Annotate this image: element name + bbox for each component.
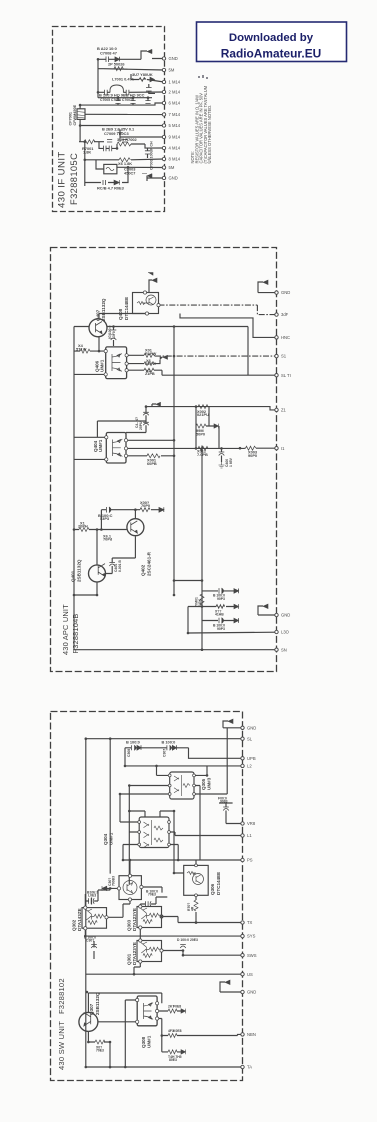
transistor Q407 bbox=[89, 319, 107, 337]
svg-text:SL: SL bbox=[247, 736, 253, 741]
wire 5M row with left bus bbox=[98, 59, 164, 97]
svg-text:C7005 C7006 C7007: C7005 C7006 C7007 bbox=[100, 98, 132, 102]
svg-text:UM#3: UM#3 bbox=[207, 777, 212, 790]
cap Q407-Q406 bbox=[111, 330, 117, 340]
digital transistor Q306 bbox=[184, 865, 209, 895]
bottom cluster wires bbox=[174, 581, 234, 634]
flag r3 bbox=[181, 1050, 186, 1055]
svg-text:L2: L2 bbox=[247, 764, 252, 769]
svg-text:4 M14: 4 M14 bbox=[169, 146, 181, 151]
resistor left of Q406 bbox=[80, 349, 90, 353]
caps row C7005 C7006 C7007 bbox=[115, 101, 150, 104]
wire US long bbox=[86, 973, 243, 975]
resistor below Q307 bbox=[95, 1040, 105, 1044]
svg-text:TA: TA bbox=[247, 1065, 252, 1070]
cap left of Q301 bbox=[91, 945, 97, 949]
wire GND top flag bbox=[223, 721, 243, 794]
digital transistor Q302 bbox=[82, 908, 107, 929]
transistor array Q308 bbox=[137, 996, 157, 1026]
wire L2 bbox=[125, 766, 243, 776]
cap right of Q301 bbox=[180, 945, 186, 949]
svg-text:70Pd: 70Pd bbox=[103, 537, 113, 542]
capacitor near 2M14 bbox=[146, 88, 152, 92]
svg-text:L3O: L3O bbox=[281, 630, 290, 635]
resistors under Q306 bbox=[194, 900, 198, 911]
R7001 wire 4M14 row bbox=[79, 142, 164, 149]
APC unit dashed border bbox=[51, 248, 277, 672]
svg-text:B 100:0: B 100:0 bbox=[126, 740, 140, 745]
transistor Q307 bbox=[79, 1012, 98, 1031]
wire Q308 right resistors bbox=[157, 1011, 242, 1052]
resistors right of Q406 bbox=[144, 353, 154, 357]
resistor 7627 bbox=[198, 446, 208, 450]
svg-text:CFWM450E: CFWM450E bbox=[73, 104, 77, 125]
cap above Q303 bbox=[146, 901, 152, 907]
IF connector GND bbox=[162, 57, 165, 60]
flag left of Q309 bbox=[102, 886, 107, 891]
svg-text:3U7 Y80UK: 3U7 Y80UK bbox=[132, 72, 153, 77]
IF connector 5M14 bbox=[162, 124, 165, 127]
svg-text:20PH: 20PH bbox=[78, 524, 88, 529]
wire y455 row bbox=[126, 448, 222, 462]
svg-text:2SB1132Q: 2SB1132Q bbox=[77, 559, 82, 582]
cap above X1 bbox=[106, 507, 163, 513]
svg-text:DTC144EE: DTC144EE bbox=[216, 872, 221, 895]
svg-text:TX: TX bbox=[247, 920, 253, 925]
caps row mid bbox=[107, 130, 128, 142]
svg-text:SN: SN bbox=[281, 647, 287, 652]
svg-text:C7008 47: C7008 47 bbox=[100, 51, 117, 56]
svg-text:Z1: Z1 bbox=[281, 408, 287, 413]
svg-text:VR8: VR8 bbox=[247, 821, 256, 826]
wire PS bbox=[123, 845, 243, 861]
svg-text:25PU: 25PU bbox=[139, 421, 143, 430]
svg-text:Q408: Q408 bbox=[118, 308, 123, 320]
svg-text:9 M14: 9 M14 bbox=[169, 135, 181, 140]
svg-text:DTA123YE: DTA123YE bbox=[132, 908, 137, 931]
inductor L7001 bbox=[110, 85, 123, 93]
cap above Q302 bbox=[89, 898, 95, 904]
svg-text:1.8K: 1.8K bbox=[83, 150, 91, 155]
svg-text:5M: 5M bbox=[169, 165, 175, 170]
svg-text:90P3: 90P3 bbox=[217, 627, 225, 631]
svg-text:UM#1: UM#1 bbox=[98, 439, 103, 452]
wire SL long bbox=[86, 739, 243, 1067]
caps above Q404 bbox=[143, 412, 149, 425]
svg-text:7.0PB: 7.0PB bbox=[197, 452, 208, 457]
wire Q301 pins bbox=[134, 936, 183, 974]
SW connector US bbox=[241, 973, 244, 976]
APC connector S1 bbox=[275, 354, 278, 357]
wire X1 row bbox=[74, 529, 127, 531]
svg-text:US: US bbox=[247, 972, 253, 977]
svg-text:2SC2461-R: 2SC2461-R bbox=[147, 551, 152, 576]
CF7001 pins bbox=[79, 105, 81, 142]
IF connector 6M14 bbox=[162, 101, 165, 104]
svg-text:8 M14: 8 M14 bbox=[169, 157, 181, 162]
caps row bus bbox=[98, 98, 152, 105]
SW unit dashed border bbox=[51, 712, 243, 1081]
svg-text:3dF: 3dF bbox=[281, 312, 289, 317]
wire Q302 pins bbox=[85, 901, 123, 936]
SW connector GND bbox=[241, 726, 244, 729]
flag mid right of Q406 bbox=[160, 355, 168, 360]
svg-text:Q303: Q303 bbox=[127, 919, 132, 931]
svg-text:60PB: 60PB bbox=[147, 461, 157, 466]
flag GND3 bbox=[225, 980, 230, 984]
capacitor C307 bbox=[167, 745, 177, 750]
wire Q404 left bbox=[74, 421, 116, 459]
svg-text:Q304: Q304 bbox=[103, 833, 108, 845]
cap VR8 bbox=[223, 807, 229, 811]
wire Q406 left bbox=[74, 351, 106, 374]
SW connector NBN bbox=[241, 1033, 244, 1036]
svg-text:021PU: 021PU bbox=[197, 412, 209, 417]
wire Q404 top bbox=[116, 421, 146, 433]
svg-text:Q402: Q402 bbox=[141, 564, 146, 576]
flag under C408 bbox=[219, 462, 225, 468]
flag r1 bbox=[181, 1009, 186, 1014]
svg-text:GND: GND bbox=[281, 290, 290, 295]
crystal filter CF7001 bbox=[77, 109, 85, 120]
svg-text:X6 1.8K: X6 1.8K bbox=[118, 161, 132, 166]
flag GND top bbox=[263, 280, 268, 284]
flag GND bottom bbox=[142, 174, 152, 179]
svg-text:5 M14: 5 M14 bbox=[169, 123, 181, 128]
SW connector TX bbox=[241, 921, 244, 924]
svg-text:PS: PS bbox=[247, 858, 253, 863]
diode D402 bbox=[214, 424, 219, 429]
svg-text:S1: S1 bbox=[281, 354, 287, 359]
resistor ladder under Z1 bbox=[196, 407, 219, 449]
wire top GND bbox=[98, 51, 164, 59]
APC connector GND bbox=[275, 291, 278, 294]
IF connector 2M14 bbox=[162, 90, 165, 93]
svg-text:L7001 0.47h: L7001 0.47h bbox=[112, 76, 135, 81]
digital transistor Q408 bbox=[133, 293, 159, 314]
svg-text:SWS: SWS bbox=[247, 953, 257, 958]
SW connector UPB bbox=[241, 757, 244, 760]
flag GND top bbox=[147, 49, 152, 53]
wire cap above Q303 bbox=[140, 897, 167, 904]
IF connector GND2 bbox=[162, 176, 165, 179]
long wire 6M14 bbox=[80, 103, 164, 105]
capacitor C7008 top bbox=[106, 57, 120, 63]
IF connector 5M bbox=[162, 68, 165, 71]
junction dots bbox=[112, 325, 115, 328]
APC connector SLTI bbox=[275, 374, 278, 377]
digital transistor Q301 bbox=[137, 941, 162, 962]
wire Q306 bottom resistors bbox=[195, 895, 197, 922]
wire cap above Q302 bbox=[85, 890, 110, 905]
resistor X41 bbox=[216, 604, 239, 609]
svg-text:430 APC UNIT: 430 APC UNIT bbox=[61, 604, 70, 655]
svg-text:UPB: UPB bbox=[247, 756, 256, 761]
svg-text:Q305: Q305 bbox=[201, 778, 206, 790]
svg-text:2 M14: 2 M14 bbox=[169, 90, 181, 95]
svg-text:F0E8: F0E8 bbox=[173, 1005, 181, 1009]
wire Q304 left pins bbox=[120, 794, 139, 845]
wire 3dF dash-dot bbox=[159, 305, 277, 315]
svg-text:D 100:0 20E3: D 100:0 20E3 bbox=[177, 938, 198, 942]
wire GND3 flag bbox=[220, 982, 243, 992]
SW connector TA bbox=[241, 1065, 244, 1068]
resistor X001 bbox=[147, 454, 160, 458]
wire Z1 bbox=[146, 407, 277, 410]
resistor ladder R402 bbox=[198, 405, 208, 409]
svg-text:C307: C307 bbox=[163, 749, 167, 757]
resistor ladder R403 bbox=[196, 424, 206, 428]
svg-text:41HB: 41HB bbox=[215, 613, 224, 617]
SW connector L1 bbox=[241, 834, 244, 837]
cap C404 bbox=[109, 563, 115, 567]
discriminator pins bbox=[80, 142, 164, 169]
svg-text:GND: GND bbox=[247, 990, 256, 995]
bottom diode bbox=[114, 180, 120, 185]
wire Q307 base Q308 bbox=[98, 1021, 137, 1023]
inductor L7001 wire bbox=[98, 91, 164, 93]
svg-text:700B3: 700B3 bbox=[112, 876, 116, 886]
ceramic discriminator CD7001 bbox=[104, 164, 117, 173]
svg-text:7 M14: 7 M14 bbox=[169, 112, 181, 117]
svg-text:70E3: 70E3 bbox=[148, 893, 156, 897]
resistor R7004 bbox=[119, 158, 130, 162]
svg-text:Q308: Q308 bbox=[141, 1036, 146, 1048]
APC connector HNC bbox=[275, 336, 278, 339]
svg-text:E1PW: E1PW bbox=[145, 361, 156, 366]
flag GND top bbox=[228, 719, 233, 723]
wire Q402 top bbox=[101, 510, 159, 530]
svg-text:GND: GND bbox=[281, 613, 290, 618]
wire HNC bbox=[180, 314, 277, 338]
wire 1M14 row bbox=[131, 74, 164, 82]
capacitor C308 bbox=[132, 745, 142, 750]
svg-text:L0E3: L0E3 bbox=[88, 894, 96, 898]
wire Q407 collector row bbox=[107, 327, 277, 376]
wire 8M14 row bbox=[85, 142, 164, 186]
wire UPB caps row bbox=[110, 739, 242, 874]
svg-text:F3288104B: F3288104B bbox=[71, 613, 80, 653]
wire GND top with flag pole bbox=[258, 282, 277, 293]
svg-text:C308: C308 bbox=[127, 749, 131, 757]
note block bbox=[190, 85, 212, 163]
svg-text:HNC: HNC bbox=[281, 335, 290, 340]
resistor YM01 bbox=[200, 594, 204, 605]
wire SN bbox=[74, 649, 277, 651]
IF connector 7M14 bbox=[162, 113, 165, 116]
badge box bbox=[197, 22, 347, 62]
svg-text:UNLESS OTHERWISE NOTED.: UNLESS OTHERWISE NOTED. bbox=[207, 105, 212, 164]
resistor R7001 bbox=[84, 140, 95, 144]
cap B100 bottom bbox=[219, 618, 239, 624]
wire Q303 pins bbox=[140, 904, 178, 936]
junction dots bbox=[85, 737, 88, 740]
vertical to 7M14 bbox=[85, 113, 164, 115]
wire TA long bbox=[86, 1066, 243, 1068]
IF connector 4M14 bbox=[162, 146, 165, 149]
cap C7003 vertical bbox=[147, 148, 149, 158]
svg-text:RadioAmateur.EU: RadioAmateur.EU bbox=[221, 46, 321, 60]
APC connector 3dF bbox=[275, 313, 278, 316]
smudge mark below badge bbox=[198, 75, 208, 79]
svg-text:GND: GND bbox=[169, 176, 178, 181]
small transistor pkg Q309 bbox=[119, 876, 141, 900]
svg-text:UM#1: UM#1 bbox=[99, 359, 104, 372]
wire Q3xx cluster top bbox=[107, 845, 162, 905]
bottom series cap bbox=[103, 180, 106, 185]
svg-text:43F0: 43F0 bbox=[112, 331, 116, 339]
SW connector VR8 bbox=[241, 822, 244, 825]
wire Q306 top bbox=[174, 811, 196, 873]
resistor near I1 bbox=[246, 446, 257, 450]
IF connector 9M14 bbox=[162, 135, 165, 138]
svg-text:Q301: Q301 bbox=[127, 953, 132, 965]
svg-text:UM#1: UM#1 bbox=[109, 832, 114, 845]
wire VR8 cap bbox=[219, 803, 243, 824]
svg-text:RC/B 4.7 R0E3: RC/B 4.7 R0E3 bbox=[97, 186, 125, 191]
svg-text:L1: L1 bbox=[247, 833, 252, 838]
wire Q305 right pins bbox=[194, 766, 227, 860]
wire cap left Q301 bbox=[93, 941, 95, 959]
svg-text:Q307: Q307 bbox=[89, 1003, 94, 1015]
transistor array Q406 bbox=[106, 347, 127, 379]
svg-text:6 M14: 6 M14 bbox=[169, 101, 181, 106]
svg-text:1GK: 1GK bbox=[198, 598, 202, 606]
wire Q308 top bus bbox=[125, 1000, 137, 1067]
SW connector GND3 bbox=[241, 990, 244, 993]
diode D7001 bbox=[114, 67, 123, 71]
SW connector SWS bbox=[241, 954, 244, 957]
svg-text:430 SW UNIT F3288102: 430 SW UNIT F3288102 bbox=[57, 978, 66, 1070]
svg-text:SYS: SYS bbox=[247, 934, 256, 939]
SW connector L2 bbox=[241, 764, 244, 767]
IF connector 1M14 bbox=[162, 80, 165, 83]
svg-text:C7009 7B0C3: C7009 7B0C3 bbox=[104, 131, 129, 136]
svg-text:SL TI: SL TI bbox=[281, 373, 291, 378]
svg-text:R1PW: R1PW bbox=[145, 351, 157, 356]
wire TX bbox=[178, 922, 243, 924]
svg-text:GND: GND bbox=[247, 725, 256, 730]
wire Q305 left pins bbox=[120, 775, 170, 884]
APC connector L3O bbox=[275, 630, 278, 633]
wire Q307 top bbox=[88, 993, 161, 1012]
svg-text:1 85V: 1 85V bbox=[229, 457, 233, 467]
svg-text:2SB1132Q: 2SB1132Q bbox=[101, 298, 106, 321]
cap C408 bbox=[219, 452, 225, 456]
wire Q408 to flag bbox=[145, 273, 152, 293]
svg-text:21PB: 21PB bbox=[145, 371, 155, 376]
svg-text:F3288105C: F3288105C bbox=[69, 153, 79, 205]
svg-text:Q306: Q306 bbox=[210, 883, 215, 895]
resistor R7003 bbox=[139, 77, 155, 82]
APC connector GND2 bbox=[275, 613, 278, 616]
wire 9M14 row bbox=[120, 130, 164, 142]
svg-text:DTA123YE: DTA123YE bbox=[132, 942, 137, 965]
wire SYS bbox=[85, 935, 242, 937]
svg-text:450C7: 450C7 bbox=[124, 170, 135, 175]
wire L1 bbox=[169, 832, 243, 836]
caps cluster above Q404 bbox=[146, 404, 156, 429]
svg-text:70E3: 70E3 bbox=[96, 1049, 104, 1053]
transistor array Q404 bbox=[106, 433, 126, 464]
svg-text:70P0: 70P0 bbox=[141, 503, 150, 508]
svg-text:2P 50026: 2P 50026 bbox=[108, 61, 125, 66]
wire L3O bbox=[188, 631, 277, 634]
wire Q406 right to resistors bbox=[127, 355, 248, 375]
resistor right Q308 r1 bbox=[168, 1009, 177, 1013]
wire GND2 flag bbox=[258, 606, 277, 615]
vertical bus x174 bbox=[173, 327, 175, 596]
svg-text:53P3: 53P3 bbox=[100, 516, 110, 521]
svg-text:I1: I1 bbox=[281, 446, 285, 451]
svg-text:DTA143ZE: DTA143ZE bbox=[77, 908, 82, 931]
wire Q402 emitter down to Q401 base bbox=[112, 536, 135, 558]
flag above Q404 caps bbox=[156, 402, 161, 406]
svg-text:1 M14: 1 M14 bbox=[169, 80, 181, 85]
svg-text:Downloaded by: Downloaded by bbox=[229, 32, 314, 44]
wire 5M14 row bbox=[80, 125, 164, 127]
transistor array Q305 bbox=[170, 772, 194, 799]
svg-text:B 100:0: B 100:0 bbox=[162, 740, 176, 745]
APC connector SN bbox=[275, 648, 278, 651]
cap to 2M14 bbox=[149, 84, 155, 93]
flag wire GND bottom bbox=[147, 176, 164, 182]
wire Q407 base bus bbox=[74, 327, 89, 650]
svg-text:2SB1132Q: 2SB1132Q bbox=[95, 992, 100, 1015]
wire I1 row bbox=[126, 440, 277, 448]
svg-text:NBN: NBN bbox=[247, 1032, 256, 1037]
resistor right Q308 r3 bbox=[168, 1050, 177, 1054]
wire Q407 emitter to Q406 bbox=[99, 314, 147, 352]
digital transistor Q303 bbox=[137, 907, 162, 928]
svg-text:C7003 100UF CH: C7003 100UF CH bbox=[150, 141, 154, 170]
flag above Q408 bbox=[148, 273, 157, 283]
SW connector SYS bbox=[241, 934, 244, 937]
resistor right Q308 r2 bbox=[168, 1034, 177, 1038]
SW connector PS bbox=[241, 858, 244, 861]
transistor array Q304 bbox=[139, 817, 169, 848]
transistor Q401 bbox=[89, 565, 106, 582]
svg-text:DTC144EE: DTC144EE bbox=[124, 297, 129, 320]
svg-text:9083: 9083 bbox=[220, 800, 228, 804]
IF unit dashed border bbox=[53, 27, 165, 212]
svg-text:Q302: Q302 bbox=[72, 919, 77, 931]
svg-text:3U9 R7002: 3U9 R7002 bbox=[117, 137, 138, 142]
resistor X1 bbox=[79, 528, 89, 532]
series caps bbox=[104, 146, 112, 152]
svg-text:K0E8: K0E8 bbox=[173, 1029, 182, 1033]
svg-text:UM#1: UM#1 bbox=[147, 1035, 152, 1048]
transistor Q402 bbox=[127, 519, 144, 536]
resistor R7002 bbox=[117, 142, 131, 146]
IF connector 5M2 bbox=[162, 166, 165, 169]
svg-text:C30?: C30? bbox=[86, 939, 94, 943]
svg-text:0.001 B: 0.001 B bbox=[118, 560, 122, 572]
APC connector Z1 bbox=[275, 408, 278, 411]
wire S1 dash-dot bbox=[155, 355, 277, 357]
junction dots bbox=[97, 58, 100, 61]
flag GND2 bbox=[263, 604, 268, 608]
vertical x200 long bbox=[201, 446, 203, 650]
APC connector I1 bbox=[275, 447, 278, 450]
svg-text:90P0: 90P0 bbox=[248, 453, 257, 458]
svg-text:Q401: Q401 bbox=[71, 570, 76, 582]
svg-text:50P0: 50P0 bbox=[196, 431, 205, 436]
svg-text:GND: GND bbox=[169, 56, 178, 61]
bottom diode row bbox=[85, 167, 128, 182]
cap C7003 bbox=[145, 151, 150, 154]
IF connector 8M14 bbox=[162, 157, 165, 160]
